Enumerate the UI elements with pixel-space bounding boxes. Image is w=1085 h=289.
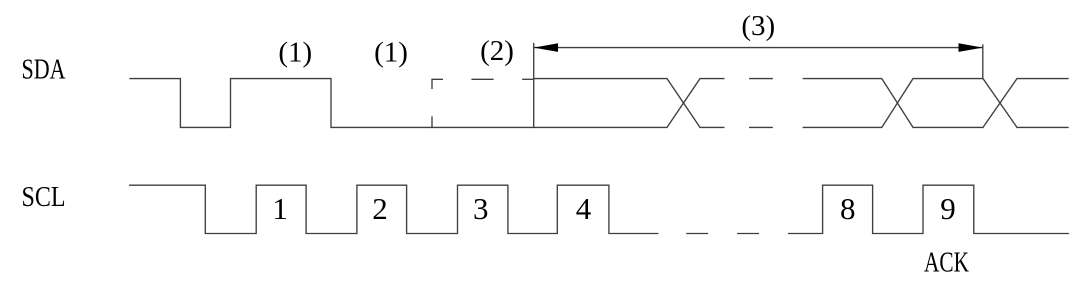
wire SDA: low into crossover X2 rising stroke, high, crossover X3 falling stroke, low to end xyxy=(803,79,1068,128)
wire SDA: solid high from node (2) vertical through crossover X1 falling stroke, stub xyxy=(534,79,724,128)
svg-text:9: 9 xyxy=(940,191,956,226)
wire SDA: high into crossover X2 falling stroke, low, crossover X3 rising stroke, high to end xyxy=(803,79,1068,128)
svg-text:3: 3 xyxy=(473,191,489,226)
svg-text:(1): (1) xyxy=(278,37,312,69)
wire SCL: dashed low segment xyxy=(738,233,759,235)
svg-text:(2): (2) xyxy=(480,35,514,67)
node (2): extension line at start of measurement (3) xyxy=(533,44,535,128)
wire SDA: start high, fall, low, rise, high, fall, long low into crossover X1 rising stroke, stub xyxy=(130,79,724,128)
wire SDA: dashed rising edge at node (1) lower segment xyxy=(431,117,433,127)
wire SCL: dashed low segment xyxy=(687,233,708,235)
svg-text:ACK: ACK xyxy=(924,246,969,278)
svg-text:2: 2 xyxy=(372,191,388,226)
wire SCL: low, pulse 8, pulse 9, low to end xyxy=(789,185,1069,233)
wire SDA: dashed high segment xyxy=(472,78,493,80)
wire SDA: dashed continuation high level xyxy=(750,78,773,80)
arrowhead right of dimension (3) xyxy=(959,43,983,52)
wire SCL: start high, pulses 1-4, low run xyxy=(130,185,658,233)
arrowhead left of dimension (3) xyxy=(534,43,558,52)
svg-text:(3): (3) xyxy=(741,10,775,42)
svg-text:(1): (1) xyxy=(374,37,408,69)
svg-text:SCL: SCL xyxy=(22,181,66,213)
svg-text:8: 8 xyxy=(840,191,856,226)
extension line at end of measurement (3) xyxy=(982,45,984,79)
wire SDA: dashed rising edge upper corner segment xyxy=(432,79,442,88)
wire SDA: dashed high segment meeting node (2) xyxy=(523,78,534,80)
dimension line (3) xyxy=(534,47,983,49)
svg-text:4: 4 xyxy=(576,191,592,226)
wire SDA: dashed continuation low level xyxy=(750,126,773,128)
svg-text:SDA: SDA xyxy=(22,54,66,86)
svg-text:1: 1 xyxy=(272,191,288,226)
